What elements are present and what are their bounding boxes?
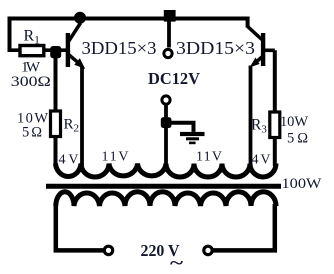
svg-text:3DD15×3: 3DD15×3 bbox=[82, 38, 157, 58]
svg-text:11V: 11V bbox=[102, 150, 129, 165]
svg-text:4V: 4V bbox=[59, 153, 79, 168]
svg-text:100W: 100W bbox=[282, 176, 322, 192]
svg-text:10W: 10W bbox=[280, 114, 308, 130]
svg-text:4V: 4V bbox=[252, 153, 271, 168]
svg-text:5Ω: 5Ω bbox=[287, 131, 308, 147]
svg-text:~: ~ bbox=[170, 253, 184, 273]
svg-text:5Ω: 5Ω bbox=[22, 125, 42, 141]
svg-text:11V: 11V bbox=[196, 150, 222, 165]
svg-text:300Ω: 300Ω bbox=[11, 74, 51, 90]
svg-text:R2: R2 bbox=[64, 117, 80, 135]
svg-text:3DD15×3: 3DD15×3 bbox=[176, 38, 255, 58]
svg-text:DC12V: DC12V bbox=[148, 69, 201, 88]
svg-text:R3: R3 bbox=[251, 117, 267, 136]
svg-text:R1: R1 bbox=[24, 28, 41, 47]
